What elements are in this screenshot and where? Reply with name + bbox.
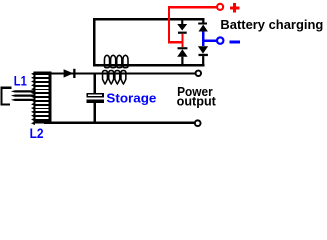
transformer secondary winding [103, 71, 126, 84]
inductor L2 spine [48, 72, 51, 124]
capacitor C1 top plate [86, 93, 104, 98]
svg-text:Storage: Storage [106, 91, 156, 105]
capacitor C1 top lead [94, 73, 96, 93]
wire blue horizontal to terminal [202, 40, 217, 42]
capacitor C1 bottom lead [94, 103, 96, 123]
label + [230, 3, 240, 13]
svg-text:output: output [177, 93, 217, 108]
diode D3 bridge bottom-left [177, 47, 187, 64]
wire red vertical [168, 6, 170, 43]
wire red vertical D2 bar to D3 bar [181, 34, 183, 47]
transformer primary winding [104, 55, 128, 67]
capacitor C1 bottom plate [86, 100, 104, 103]
wire red + lead horizontal top [168, 6, 217, 8]
diode D5 bridge bottom-right [198, 46, 208, 64]
wire main horizontal line [45, 72, 197, 74]
terminal + red circle [217, 4, 223, 10]
wire L1 left vertical lead [0, 87, 2, 106]
svg-text:L1: L1 [14, 73, 27, 88]
wire bottom rail / primary line [93, 64, 205, 66]
wire L1 top lead [0, 87, 11, 89]
inductor L2 loop tip bumps [31, 72, 35, 76]
wire red horizontal to diode bars [168, 41, 184, 43]
inductor L2 coil body [33, 72, 51, 124]
wire top rail [93, 18, 205, 20]
terminal power output top [196, 71, 202, 77]
wire L1 bottom lead [0, 103, 10, 105]
diode D4 bridge top-right [198, 20, 208, 32]
inductor L2 loop slits [35, 75, 49, 77]
wire bottom return line [44, 122, 195, 125]
label - [230, 41, 240, 44]
svg-text:Battery charging: Battery charging [220, 17, 323, 32]
diode D2 bridge top-left [177, 20, 187, 34]
diode D1 [64, 69, 76, 78]
wire blue lead between D4 and D5 [202, 32, 204, 47]
wire left edge of charging loop [93, 18, 95, 66]
inductor L1 interleaved loop bands [11, 90, 34, 92]
svg-text:L2: L2 [30, 126, 44, 141]
terminal power output bottom [195, 120, 201, 126]
terminal - blue circle [217, 37, 223, 43]
